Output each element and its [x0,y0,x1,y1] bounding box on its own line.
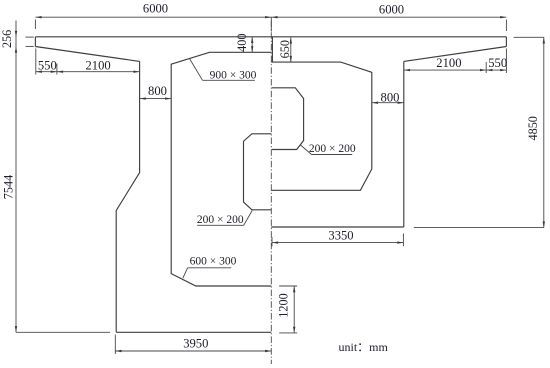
svg-text:3350: 3350 [328,229,353,243]
svg-text:900 × 300: 900 × 300 [210,69,257,81]
svg-text:256: 256 [0,30,14,48]
svg-text:2100: 2100 [436,56,461,70]
svg-text:3950: 3950 [183,337,208,351]
svg-text:800: 800 [148,84,167,98]
svg-text:550: 550 [38,58,57,72]
svg-text:200 × 200: 200 × 200 [309,143,356,155]
svg-text:7544: 7544 [2,175,16,199]
svg-text:650: 650 [278,40,292,58]
svg-text:1200: 1200 [276,293,290,317]
svg-text:4850: 4850 [526,116,540,140]
svg-text:6000: 6000 [379,3,404,17]
svg-text:200 × 200: 200 × 200 [197,214,244,226]
svg-text:6000: 6000 [143,2,168,16]
svg-text:600 × 300: 600 × 300 [190,256,237,268]
svg-text:2100: 2100 [86,58,111,72]
svg-text:550: 550 [488,56,507,70]
svg-text:400: 400 [235,34,249,52]
svg-text:800: 800 [381,90,400,104]
svg-text:unit：mm: unit：mm [339,340,389,354]
